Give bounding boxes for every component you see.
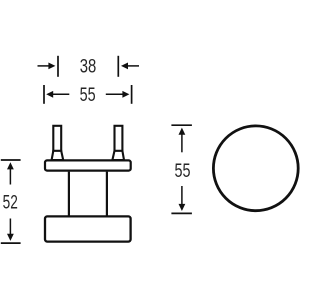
dimension 55 left arrow xyxy=(46,91,69,98)
dimension 38 value label xyxy=(80,56,97,78)
bolt right cap xyxy=(112,151,124,160)
dimension 55 vertical top tick xyxy=(171,124,192,126)
knob side view xyxy=(45,216,131,241)
svg-text:55: 55 xyxy=(80,84,96,106)
dimension 52 down arrow xyxy=(7,219,14,241)
dimension 52 up arrow xyxy=(7,162,14,184)
dimension 55 vertical bottom tick xyxy=(171,212,192,214)
dimension 55 vertical value label xyxy=(175,160,191,182)
neck right line xyxy=(106,172,108,217)
dimension 55 vertical up arrow xyxy=(179,128,186,153)
knob front view circle xyxy=(213,126,298,211)
dimension 38 left arrow xyxy=(38,63,56,70)
dimension 55 left extension tick xyxy=(43,85,45,104)
bolt left shaft xyxy=(53,126,61,152)
dimension 38 left extension tick xyxy=(57,56,59,77)
dimension 38 right extension tick xyxy=(117,56,119,77)
dimension 55 right extension tick xyxy=(131,85,133,104)
neck left line xyxy=(68,172,70,217)
svg-text:52: 52 xyxy=(3,192,18,214)
bolt right shaft xyxy=(115,126,123,152)
dimension 52 value label xyxy=(3,192,18,214)
dimension 55 value label xyxy=(80,84,96,106)
dimension 38 right arrow xyxy=(121,63,139,70)
svg-text:38: 38 xyxy=(80,56,97,78)
dimension 55 right arrow xyxy=(106,91,130,98)
svg-text:55: 55 xyxy=(175,160,191,182)
dimension 52 top tick xyxy=(1,159,21,161)
dimension 55 vertical down arrow xyxy=(179,186,186,211)
dimension 52 bottom tick xyxy=(1,242,21,244)
rose plate side view xyxy=(45,160,131,170)
bolt left cap xyxy=(52,151,64,160)
